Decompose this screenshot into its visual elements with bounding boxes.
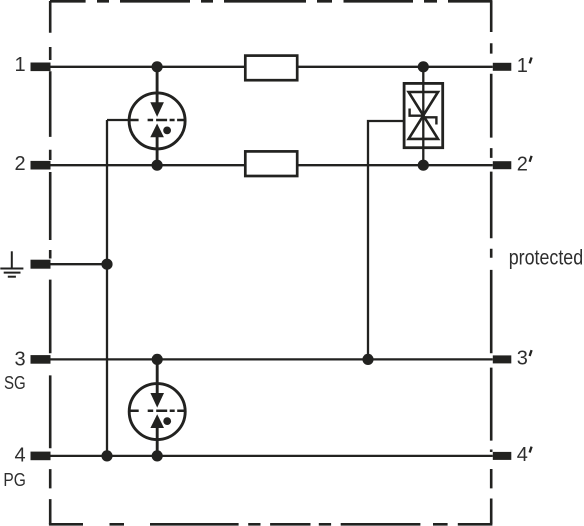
node line2/GDT1 [152,160,163,171]
svg-text:3: 3 [14,348,25,370]
wire line 1 left [51,66,246,68]
node line3/x368 [362,354,373,365]
prime marks for right labels [530,58,532,453]
node line4/x107 [101,450,112,461]
wire vertical x368 (TVS middle to line 3) [368,121,404,359]
wire line 2 left [51,164,246,166]
svg-text:1: 1 [517,55,528,77]
TVS diode box [404,83,443,147]
terminal ground [31,260,51,269]
U1 top arrow [150,102,164,117]
node line2/TVS [418,160,429,171]
wire ground rail [51,263,108,265]
svg-text:2: 2 [14,153,25,175]
svg-text:2: 2 [517,153,528,175]
TVS zener bar right [423,117,436,124]
terminal 4 [31,452,51,461]
terminal 2 [31,161,51,170]
terminal 3 [31,355,51,364]
node ground/x107 [101,259,112,270]
gas discharge tube U2 (circle) [129,384,185,440]
wire line 4 [51,455,493,457]
wire line 2 right [297,164,493,166]
terminal 2' [493,161,512,169]
terminal 1' [493,63,512,71]
svg-text:PG: PG [3,470,26,490]
border bottom (dash-dot) [49,523,493,526]
border right (dash-dot) [490,1,493,524]
U2 gas dot [163,417,171,425]
svg-text:3: 3 [517,348,528,370]
wire GDT1 middle electrode stub [107,119,130,121]
wire TVS vertical [422,67,424,165]
node line1/GDT1 [152,61,163,72]
terminal blocks [31,63,512,461]
U1 bottom arrow [150,124,164,138]
wire GDT1 shaft top [156,67,159,104]
wire vertical x107 (GDT1 middle electrode to PG) [106,120,108,456]
U2 middle electrode dash-dot [129,409,185,412]
svg-text:SG: SG [4,373,26,393]
terminal 1 [31,63,51,72]
border top (dash-dot) [50,0,492,3]
U1 gas dot [163,126,171,134]
TVS zener bar left [410,109,424,116]
svg-text:4: 4 [14,445,25,467]
TVS top triangle [409,92,438,115]
wire GDT1 shaft bottom [156,137,159,165]
wire GDT2 shaft top [156,359,159,394]
U1 middle electrode dash-dot [129,119,185,122]
wire line 1 right [297,66,493,68]
ground symbol [0,251,23,276]
TVS bottom triangle [409,116,438,139]
svg-text:1: 1 [14,54,25,76]
node line3/GDT2 [152,354,163,365]
node line1/TVS [418,61,429,72]
U2 bottom arrow [150,414,164,428]
border left (dash-dot) [49,1,52,524]
terminal 4' [493,452,512,460]
terminal 3' [493,355,512,363]
wire line 3 [51,358,493,360]
resistor R1 [245,56,297,81]
svg-text:protected: protected [509,246,584,270]
node line4/GDT2 [152,450,163,461]
U2 top arrow [150,393,164,408]
svg-text:4: 4 [517,444,528,466]
wire GDT2 shaft bottom [156,428,159,456]
gas discharge tube U1 (circle) [129,93,185,149]
resistor R2 [245,151,297,176]
